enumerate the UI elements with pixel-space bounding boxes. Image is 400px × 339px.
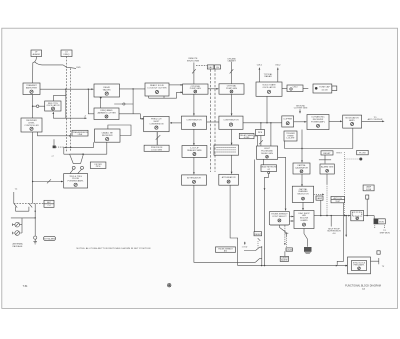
box filter pipe [90, 162, 106, 168]
box tune cap [313, 84, 332, 93]
wire y147.4 [64, 142, 94, 147]
wire transmit amp to relay valves [40, 88, 93, 90]
wire count to loading alarm [284, 251, 286, 256]
box crystal pump gen 2 [219, 84, 244, 94]
blade below reset2 [258, 238, 261, 241]
wire x35.2 to terminal [34, 203, 36, 236]
box output monitor outer [348, 257, 371, 274]
svg-text:FORMING AMPL: FORMING AMPL [68, 180, 85, 183]
junction dots [32, 106, 33, 107]
box trig pulse forming ampl [64, 174, 88, 188]
wire incline guard bottom switch [304, 229, 307, 247]
svg-text:CALIBRATOR: CALIBRATOR [295, 167, 309, 170]
box freq band jamming cutter [94, 108, 119, 120]
wire calibrator to channel selector [301, 174, 303, 186]
wire rcv controller down [32, 132, 34, 203]
wire alarm gen down [326, 174, 328, 184]
wire AGC top loop [53, 96, 66, 101]
svg-text:CONT SELECT: CONT SELECT [272, 216, 287, 218]
box receiver level controller [21, 118, 42, 132]
wire cutter gen label arrow down [299, 109, 301, 113]
funnel shape [70, 154, 84, 163]
wire pump gen1 to pump gen2 [208, 88, 218, 90]
svg-text:CONTRIBUTOR: CONTRIBUTOR [186, 119, 202, 121]
svg-text:VALVES: VALVES [103, 88, 111, 91]
antenna bracket [16, 207, 29, 212]
wire branch curving right to switch [35, 62, 76, 69]
svg-text:POWER AMPL: POWER AMPL [311, 120, 326, 123]
wire light pulse right to trunk select top [278, 157, 286, 210]
wire launch area stub down [345, 216, 347, 237]
wire delay network jog down to bus [265, 174, 269, 266]
box pulse pipe [256, 130, 265, 136]
box crystal pump gen 1 [183, 84, 208, 94]
svg-text:RESET: RESET [323, 153, 331, 155]
box B freq unit [61, 50, 72, 57]
wire receiver to modulator [329, 120, 342, 122]
dashed stub with arrow [284, 226, 286, 246]
svg-text:COUNT: COUNT [286, 250, 294, 252]
wire pump gen1 top with switch [192, 63, 196, 85]
antenna element 1 [15, 222, 20, 227]
svg-text:1 CVD: 1 CVD [242, 247, 248, 249]
box ant switch [44, 200, 54, 207]
wire launch set right side [364, 199, 375, 219]
box lamp [316, 196, 323, 200]
ext alarm pill [44, 236, 56, 240]
wire to trig former with switch [33, 179, 63, 183]
wire clipper to receiver [294, 121, 307, 123]
wire comparator to freq shift (arrow left) [170, 122, 181, 124]
wire pump gen1 to contributor1 [193, 94, 195, 115]
wire auto ch down to bottom bus [337, 203, 343, 265]
connector small box top right [366, 195, 369, 199]
wire oscillator output arrows up [259, 68, 277, 82]
dashed antenna row [14, 202, 44, 204]
wire contributor2 down to temp chamber [231, 129, 233, 145]
wire from box A down-curve to transmit amplifier [33, 57, 37, 84]
box launch set [351, 211, 364, 221]
box attenuator 2 [219, 174, 239, 185]
box ready solid lockout cutter [145, 83, 169, 96]
switch blade upper [244, 247, 262, 250]
svg-text:RESET: RESET [254, 234, 261, 236]
svg-text:T-4: T-4 [15, 189, 18, 191]
svg-text:T-54: T-54 [23, 285, 28, 288]
box trunk shrbdy control select [269, 211, 289, 225]
svg-text:AMPL: AMPL [349, 119, 356, 122]
svg-text:CLIPPER: CLIPPER [283, 118, 292, 120]
box transmission line (hatched label) [72, 130, 88, 136]
svg-text:TEST: TEST [336, 153, 342, 155]
svg-text:3-6 1B: 3-6 1B [321, 90, 328, 92]
wire mid vertical to reset2 [254, 160, 256, 232]
box liao shop incline guard [294, 211, 314, 229]
wire ready bracket to pump gen lower [149, 92, 183, 98]
box tune cap tab [332, 86, 337, 91]
antenna stubs and arrows [12, 223, 22, 235]
arrowheads [91, 88, 93, 90]
box alarm gen [320, 164, 334, 174]
antenna feed line [11, 218, 35, 225]
wire light pulse second top [270, 123, 272, 146]
wire pulse pipe to light pulse with switch [259, 136, 263, 147]
dashed boundary line [70, 68, 72, 151]
svg-text:PIPE: PIPE [258, 132, 263, 134]
svg-text:ATTENUATOR: ATTENUATOR [222, 176, 236, 179]
svg-text:RECEIVER: RECEIVER [102, 135, 113, 137]
svg-text:FWD: FWD [76, 67, 81, 69]
wire rcv controller to transmission line [38, 132, 72, 136]
box ship perf mon [374, 219, 385, 224]
terminal dot [359, 158, 362, 161]
box light pulse and delay gen [257, 146, 278, 159]
contact symbol with plate [53, 139, 55, 145]
svg-text:FREQ: FREQ [64, 54, 70, 56]
wire selector to lamp [314, 193, 325, 195]
box clipper [282, 116, 294, 127]
switch blade at wire end [255, 259, 261, 263]
funnel blades [70, 169, 82, 173]
wire trigger box to bus [284, 141, 286, 149]
wire cutter to freq shift box [119, 114, 144, 119]
bus wire y148.5 [285, 148, 353, 150]
svg-text:AUTO CH: AUTO CH [334, 197, 343, 200]
wire ready to pump gen upper [169, 84, 183, 86]
svg-text:JAMMING CUTTER: JAMMING CUTTER [97, 112, 116, 115]
box cavalline receiver [95, 129, 121, 142]
wire y152.6 from receiver [64, 142, 107, 154]
wire relay phase to light pulse [254, 136, 258, 146]
dashed wire from plate [56, 146, 64, 148]
svg-text:EXT ALARM: EXT ALARM [44, 238, 55, 241]
box capital channel selector [292, 186, 313, 202]
svg-text:+4: +4 [84, 115, 86, 117]
svg-text:OSCILLATOR: OSCILLATOR [47, 104, 60, 107]
antenna element 2 [15, 231, 20, 236]
wire light pulse to delay network [263, 159, 265, 165]
svg-text:CW-1: CW-1 [257, 64, 263, 66]
svg-text:& REF: & REF [244, 137, 250, 139]
dash-dot boundary line left [210, 69, 212, 172]
svg-text:CONVERSION: CONVERSION [149, 123, 163, 125]
box precision lock label [144, 145, 169, 151]
box cw coupler [287, 85, 303, 92]
dashed wire to cabinet boxes [196, 65, 207, 67]
svg-text:CONTRIBUTOR: CONTRIBUTOR [223, 119, 239, 121]
svg-text:FLOW: FLOW [359, 153, 366, 155]
svg-text:ALARM: ALARM [33, 53, 40, 56]
bracket under perf mon [375, 225, 385, 228]
box freq cut shift conversion [144, 116, 169, 131]
wire pulse reader down to attenuator1 [193, 157, 195, 174]
wire stub y104 with contact [114, 103, 133, 105]
switch blade on that wire [156, 135, 161, 140]
wire pulse pipe top [260, 123, 262, 130]
wire bus to supervisor label [330, 216, 332, 227]
wire pump gen2 to contributor2 [231, 94, 233, 115]
box dac [207, 65, 214, 69]
svg-text:PIPE: PIPE [96, 166, 101, 168]
box ultrasonic receiver power ampl [307, 115, 329, 130]
wire oscillator bottom to clipper row [266, 96, 268, 123]
cvd down arrow stub [244, 242, 246, 245]
svg-text:4-2: 4-2 [267, 169, 270, 171]
box flow label [357, 150, 369, 154]
box trunk shrbdy ad label [216, 247, 236, 252]
svg-text:CW-2: CW-2 [275, 64, 281, 66]
wire temp chamber to attenuator2 [231, 155, 233, 174]
svg-text:PACKAGE: PACKAGE [13, 245, 24, 248]
wire tap y106 with coupler [33, 105, 45, 107]
svg-text:NOTES: ALL PUSH-BUTTON SWITCHE: NOTES: ALL PUSH-BUTTON SWITCHES SHOWN IN… [77, 247, 151, 250]
svg-text:SHUTDOWN: SHUTDOWN [187, 60, 200, 62]
box temp chamber (hatched label) [214, 145, 239, 155]
svg-text:LOCKOUT CUTTER: LOCKOUT CUTTER [147, 87, 167, 89]
wire lamp box down [320, 200, 322, 215]
svg-text:LAMP: LAMP [317, 197, 323, 200]
box loading alarm [280, 256, 288, 261]
wire transmit amp to rcv controller [32, 95, 34, 119]
svg-text:ANT COUPLER: ANT COUPLER [368, 118, 383, 121]
svg-text:CABNET: CABNET [227, 60, 236, 63]
wire freq shift box to precision label [156, 132, 158, 146]
svg-text:FREQ AMPL: FREQ AMPL [354, 264, 365, 267]
coupler circle [36, 105, 39, 108]
svg-text:READER TAPE: READER TAPE [187, 149, 202, 152]
wire x133.1 vertical [132, 89, 134, 114]
svg-text:SHIP MON: SHIP MON [380, 232, 391, 234]
connector small box above output [377, 251, 380, 254]
contact circle [123, 103, 125, 105]
svg-text:+4: +4 [51, 155, 53, 157]
wire reset to alarm gen with tee [319, 155, 331, 164]
wire selector down to incline guard [302, 202, 304, 210]
svg-text:(U): (U) [362, 289, 365, 291]
box modulator ampl [343, 115, 362, 128]
svg-text:1-16-SHT: 1-16-SHT [286, 138, 295, 140]
svg-text:ATTENUATOR: ATTENUATOR [187, 177, 201, 180]
box attenuator 1 [182, 175, 207, 185]
svg-text:AMPLIFIER: AMPLIFIER [26, 86, 37, 89]
bus wire y215.6 [314, 215, 350, 217]
svg-text:ALARM GEN: ALARM GEN [321, 166, 334, 169]
box count [286, 248, 292, 251]
svg-text:MON: MON [379, 222, 384, 224]
svg-text:OSCILLATOR: OSCILLATOR [263, 86, 276, 89]
box contributor 2 [219, 116, 243, 129]
ground terminal circle [34, 236, 37, 239]
dash-dot boundary line right [214, 69, 216, 172]
box ch [215, 65, 221, 69]
dotted stub below reset2 [257, 241, 259, 247]
wire contributor2 to clipper [243, 122, 282, 124]
wire trunk select bottom diagonal to tee [280, 225, 289, 236]
box trigger three shot label [284, 131, 297, 141]
wire contributor1 down to pulse reader [193, 129, 195, 145]
box delay network [261, 165, 277, 172]
svg-text:LINE: LINE [78, 134, 83, 136]
shield symbol [304, 247, 312, 252]
svg-text:LOCK GEN: LOCK GEN [151, 149, 162, 151]
wire oscillator to cap box [282, 87, 308, 89]
svg-text:TUNE CAP: TUNE CAP [319, 85, 330, 88]
box A alarm unit [31, 50, 42, 57]
svg-text:CONTROLLER: CONTROLLER [24, 125, 39, 127]
box capital calibrator [293, 163, 310, 174]
box relay phase ref [239, 133, 254, 138]
wire contributor1 to contributor2 [207, 121, 219, 123]
ground symbol [33, 239, 37, 244]
wire receiver down to calibrator [301, 130, 303, 163]
wire modulator output [362, 120, 385, 122]
wire relay valves to jamming cutter [100, 97, 102, 108]
dotted wire tee to count [286, 236, 288, 248]
box output monitor inner [352, 261, 367, 271]
box pulse reader [182, 146, 207, 158]
wires trunk select to incline guard [290, 217, 294, 222]
svg-text:RADAR: RADAR [264, 75, 272, 78]
svg-text:CW-3: CW-3 [293, 87, 298, 89]
wire output box to terminal [371, 258, 379, 264]
box relay valves [94, 84, 120, 97]
wire x88.3 down to cutter [88, 89, 94, 114]
svg-text:ALARM: ALARM [281, 259, 288, 262]
svg-text:GUARD: GUARD [300, 219, 308, 222]
svg-text:FUNCTIONAL BLOCK DIAGRAM: FUNCTIONAL BLOCK DIAGRAM [345, 285, 381, 288]
svg-text:DAC: DAC [208, 66, 213, 69]
box AGC control oscillator [45, 101, 61, 111]
svg-text:FUSE: FUSE [366, 189, 372, 191]
wire attenuator1 down and across [194, 185, 255, 262]
cavalline loop wire [108, 125, 131, 136]
svg-text:C-4: C-4 [48, 205, 51, 207]
box contributor 1 [181, 116, 206, 129]
dotted wire to terminal [345, 152, 360, 216]
wire modulator bottom to bus [352, 128, 354, 148]
box reset label [321, 151, 333, 155]
box lamp fuse label [363, 185, 374, 191]
box reset 2 [254, 232, 262, 236]
svg-text:PUMP GEN: PUMP GEN [226, 88, 238, 90]
antenna switch blades [14, 203, 32, 207]
wire AGC bottom feedback [53, 112, 86, 118]
box auto ch two-row [331, 196, 345, 202]
funnel contacts [72, 166, 75, 169]
svg-text:TEST: TEST [335, 201, 341, 203]
box transmit amplifier [23, 83, 40, 95]
wire selector vertical [261, 246, 263, 266]
wire pump gen2 top with switch [230, 62, 234, 84]
svg-text:CUTTER GEN: CUTTER GEN [294, 108, 308, 110]
wire relay valves to ready lockout [120, 88, 146, 90]
svg-text:SELECTOR: SELECTOR [297, 194, 309, 196]
wire lower bus to output box [238, 265, 348, 267]
wire x65.8 vertical [65, 89, 67, 118]
wire attenuator2 down route [230, 185, 238, 265]
center page symbol [167, 283, 171, 287]
dashed line from box B down [65, 57, 67, 152]
box solid state oscillator [256, 82, 282, 96]
wire left stub [13, 192, 15, 203]
svg-text:DELAY GEN: DELAY GEN [261, 152, 273, 155]
